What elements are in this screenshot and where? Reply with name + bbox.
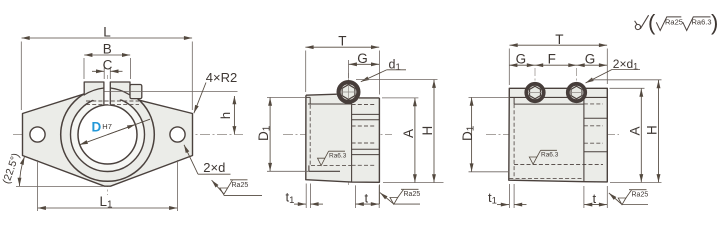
svg-text:G: G [585,51,596,66]
svg-text:D1: D1 [460,125,477,141]
svg-text:Ra6.3: Ra6.3 [692,18,712,27]
svg-text:Ra25: Ra25 [404,191,421,198]
svg-text:Ra25: Ra25 [632,192,649,199]
svg-text:H: H [645,125,660,135]
svg-text:(22.5°): (22.5°) [0,152,22,186]
svg-text:h: h [218,112,233,119]
svg-text:H: H [420,126,435,136]
svg-text:(: ( [648,10,656,35]
svg-text:2×d: 2×d [203,160,225,175]
svg-text:t: t [593,191,597,206]
svg-text:D: D [92,120,102,135]
svg-text:L: L [103,24,111,39]
svg-text:t: t [365,190,369,205]
svg-text:A: A [628,126,643,135]
svg-text:t1: t1 [286,190,295,207]
svg-text:Ra6.3: Ra6.3 [541,152,559,159]
svg-text:Ra6.3: Ra6.3 [329,153,347,160]
svg-text:H7: H7 [102,122,112,131]
svg-text:Ra25: Ra25 [232,182,249,189]
svg-text:L1: L1 [100,194,114,211]
svg-text:T: T [555,32,563,47]
svg-text:4×R2: 4×R2 [206,70,237,85]
svg-text:C: C [103,58,113,73]
svg-text:d1: d1 [389,58,401,73]
svg-text:G: G [357,51,368,66]
svg-text:F: F [548,51,556,66]
svg-text:): ) [711,10,718,35]
svg-text:T: T [338,34,346,49]
svg-text:B: B [103,41,112,56]
svg-text:G: G [516,51,527,66]
svg-text:t1: t1 [488,190,497,207]
svg-text:A: A [401,129,416,138]
svg-text:D1: D1 [256,125,273,141]
svg-text:Ra25: Ra25 [665,18,683,27]
